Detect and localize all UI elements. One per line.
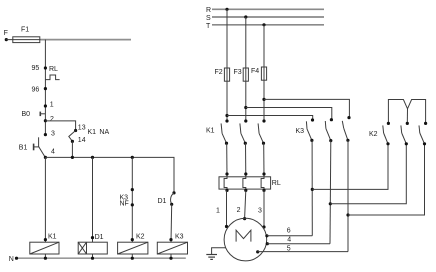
svg-text:D1: D1 [95,234,104,241]
fuse F1 [13,27,40,43]
contactor K3 pole 3 [342,116,350,142]
neutral rail N [9,256,186,263]
wire R tap to K3 pole1 [227,116,313,121]
contactor K1 pole 3 [258,119,266,144]
contactor K2 pole 2 [401,122,409,146]
node 2 [44,116,54,123]
svg-text:F: F [4,30,8,37]
wire T drop [263,25,265,121]
motor terminal 5 wire [256,246,348,254]
node 96 [32,86,48,93]
svg-text:K2: K2 [136,234,145,241]
pushbutton B1 (NO start) [19,137,45,157]
wire T tap to K3 pole3 [264,99,349,117]
pushbutton B0 (NC stop) [22,111,46,118]
svg-text:1: 1 [216,207,220,214]
phase line R [206,7,324,14]
star point bridge [388,100,425,124]
junction on rail (K1NA) [71,156,74,159]
fuse F4 [251,67,267,80]
wire join4 to K2 pole2 [330,144,406,204]
svg-text:F2: F2 [215,69,223,76]
svg-text:T: T [206,23,211,30]
contactor K3 pole 2 [325,118,333,142]
contactor coil K3 [157,234,187,259]
wire join6 to K2 pole1 [312,144,388,190]
svg-text:F3: F3 [234,69,242,76]
node RL out 3 [262,189,265,192]
svg-text:N: N [9,256,14,263]
timer contact D1 (NO) [158,191,176,206]
node 14 [71,137,86,144]
timer coil D1 [78,234,107,258]
node N terminal [15,257,18,260]
node R tap [225,8,228,11]
svg-text:2: 2 [237,207,241,214]
motor M [224,218,267,261]
junction coil K3 / N [169,257,172,260]
contact K3 NF (NC interlock) [120,188,134,208]
wire join5 to K2 pole3 [348,144,425,215]
contactor K3 pole 1 [296,118,315,142]
contactor K1 pole 2 [240,119,248,144]
auxiliary contact K1 NA [69,129,110,141]
junction coil K1 / N [44,257,47,260]
svg-text:2: 2 [50,116,54,123]
wire to coil K3 [170,204,173,242]
svg-text:K1: K1 [206,128,215,135]
motor terminal 4 wire [266,236,330,245]
motor terminal 6 wire [265,227,312,237]
node 3 [44,130,55,137]
svg-text:6: 6 [287,227,291,234]
phase line T [206,23,324,30]
contactor K2 pole 3 [419,122,427,146]
wire K1 pole3 to RL [263,143,265,177]
svg-text:96: 96 [32,86,40,93]
wire K3 pole3 down [347,140,349,251]
svg-text:RL: RL [272,180,281,187]
control rail from F1 [41,39,132,41]
wire K3 pole2 down [329,141,332,244]
wire S tap to K3 pole2 [246,108,332,120]
wire R drop [226,9,228,121]
svg-text:RL: RL [49,66,58,73]
contactor K1 pole 1 [206,119,229,144]
ground [206,255,217,260]
wire RL to motor terminal 2 [237,190,247,220]
node S-K3 tap [244,106,247,109]
node F (supply terminal) [4,30,8,41]
svg-text:1: 1 [50,102,54,109]
contactor coil K1 [30,234,59,259]
svg-text:13: 13 [78,125,86,132]
wire K3 pole1 down [311,140,313,235]
fuse F2 [215,68,230,81]
svg-text:F1: F1 [21,27,29,34]
node RL in 1 [225,172,228,175]
node T tap [262,23,265,26]
node 95 [32,65,48,72]
svg-text:5: 5 [287,246,291,253]
svg-text:NF: NF [120,201,129,208]
svg-text:D1: D1 [158,198,167,205]
fuse F3 [234,68,249,81]
junction coil D1 / N [91,257,94,260]
node RL in 2 [244,172,247,175]
svg-text:3: 3 [51,130,55,137]
svg-text:K3: K3 [175,234,184,241]
wire: control drop x=45.4 [44,40,46,135]
wire RL to motor terminal 1 [216,190,228,228]
wire contact K1NA to rail [71,141,73,157]
svg-text:95: 95 [32,65,40,72]
node S tap [244,15,247,18]
junction on rail (K2 coil) [131,156,134,159]
node 1 [44,102,54,109]
svg-text:3: 3 [258,208,262,215]
svg-text:F4: F4 [251,68,259,75]
svg-text:K3: K3 [296,128,305,135]
junction on rail (D1 coil) [91,156,94,159]
wire F to fuse F1 [6,39,45,41]
wire K1 pole2 to RL [245,143,247,177]
wire to coil K1 [44,157,46,242]
node T-K3 tap [262,98,265,101]
svg-text:R: R [206,7,211,14]
svg-text:4: 4 [287,236,291,243]
wire to coil D1 [92,157,94,242]
svg-text:B1: B1 [19,145,28,152]
wire: coil feed rail [45,157,174,193]
svg-text:14: 14 [78,137,86,144]
svg-text:4: 4 [51,149,55,156]
svg-text:K1 NA: K1 NA [88,129,110,136]
wire K1 pole1 to RL [226,143,228,177]
wire S drop [245,17,247,121]
thermal overload relay RL [219,177,281,189]
node 13 [74,125,86,133]
phase line S [206,15,324,22]
node RL in 3 [262,172,265,175]
contactor coil K2 [118,234,148,259]
motor frame ground wire [212,248,226,255]
contactor K2 pole 1 [369,122,390,146]
wire node2 to contact K1NA [45,121,75,131]
node delta join 6 [311,188,314,191]
svg-text:S: S [206,15,211,22]
wire to coil K2 [131,157,133,242]
svg-text:K2: K2 [369,131,378,138]
wire RL to motor terminal 3 [258,190,266,228]
svg-text:K1: K1 [48,234,57,241]
thermal relay trip contact RL [45,66,59,80]
node delta join 4 [329,202,332,205]
junction coil K2 / N [131,257,134,260]
node 4 [44,149,55,159]
node delta join 5 [346,213,349,216]
node RL out 1 [225,189,228,192]
node R-K3 tap [225,114,228,117]
node RL out 2 [244,189,247,192]
svg-text:B0: B0 [22,111,31,118]
